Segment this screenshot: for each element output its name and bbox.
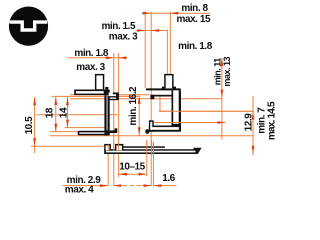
svg-text:min. 1.5: min. 1.5 xyxy=(101,21,136,32)
svg-text:min. 16.2: min. 16.2 xyxy=(128,86,139,126)
svg-text:max. 3: max. 3 xyxy=(76,62,105,73)
svg-text:min. 1.8: min. 1.8 xyxy=(178,41,213,52)
svg-text:1.6: 1.6 xyxy=(162,173,175,184)
svg-text:min. 11: min. 11 xyxy=(212,58,222,86)
svg-text:min. 1.8: min. 1.8 xyxy=(74,48,109,59)
svg-text:10.5: 10.5 xyxy=(24,116,35,135)
svg-text:max. 13: max. 13 xyxy=(222,57,232,87)
svg-text:12.9: 12.9 xyxy=(244,113,255,132)
svg-text:max. 14.5: max. 14.5 xyxy=(266,101,277,140)
svg-text:min. 8: min. 8 xyxy=(181,3,208,14)
svg-text:max. 15: max. 15 xyxy=(177,14,211,25)
svg-text:max. 4: max. 4 xyxy=(65,184,94,195)
svg-text:max. 3: max. 3 xyxy=(109,32,138,43)
svg-text:18: 18 xyxy=(45,107,56,118)
svg-text:14: 14 xyxy=(59,107,70,118)
svg-text:10–15: 10–15 xyxy=(119,162,145,173)
